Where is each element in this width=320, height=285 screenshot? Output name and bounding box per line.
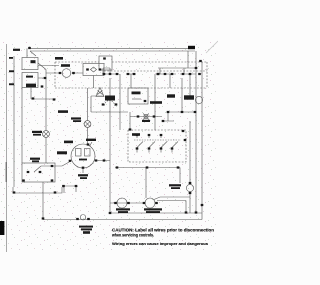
- svg-text:Wiring errors can cause improp: Wiring errors can cause improper and dan…: [112, 242, 208, 246]
- svg-text:when servicing controls.: when servicing controls.: [111, 232, 154, 237]
